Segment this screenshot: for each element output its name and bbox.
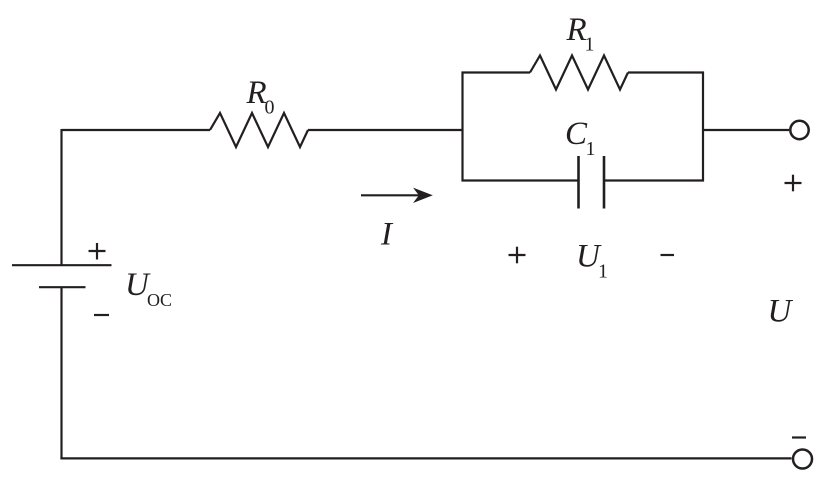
- minus mark of U1: [661, 254, 675, 256]
- svg-text:OC: OC: [147, 290, 172, 310]
- positive terminal circle: [790, 121, 808, 139]
- plus mark of U1: [509, 247, 526, 264]
- wire top branch left stub: [462, 71, 531, 73]
- label R1: [566, 12, 595, 56]
- wire bottom horizontal: [60, 457, 791, 459]
- svg-text:1: 1: [598, 261, 608, 283]
- wire R0 to parallel block: [308, 129, 463, 131]
- svg-text:R: R: [246, 75, 267, 111]
- wire left vertical lower (battery - to bottom-left corner): [60, 287, 62, 458]
- wire top horizontal (corner to R0): [62, 129, 211, 131]
- resistor R0: [210, 113, 308, 147]
- resistor R1: [530, 56, 628, 90]
- svg-text:U: U: [768, 294, 794, 330]
- svg-text:R: R: [566, 12, 587, 48]
- label UOC: [125, 267, 172, 310]
- wire top branch right stub: [628, 71, 704, 73]
- svg-text:1: 1: [586, 138, 596, 160]
- wire parallel block left branch: [461, 72, 463, 182]
- current arrow I: [361, 189, 432, 202]
- battery minus mark: [94, 314, 109, 316]
- svg-text:1: 1: [585, 34, 595, 56]
- label I: [380, 217, 394, 253]
- wire left vertical upper (battery + to top-left corner): [60, 129, 62, 265]
- label R0: [246, 75, 275, 119]
- wire bottom branch left stub: [462, 179, 579, 181]
- wire parallel block right branch: [702, 72, 704, 182]
- negative terminal circle: [793, 450, 812, 469]
- wire bottom branch right stub: [604, 179, 704, 181]
- battery UOC positive plate: [12, 264, 112, 266]
- svg-text:0: 0: [265, 97, 275, 119]
- minus mark at negative terminal: [792, 436, 806, 438]
- wire block to positive terminal: [703, 129, 789, 131]
- label U output: [768, 294, 794, 330]
- svg-text:I: I: [380, 217, 394, 253]
- battery plus mark: [89, 243, 106, 260]
- label U1: [576, 239, 608, 283]
- capacitor C1 left plate: [577, 156, 580, 209]
- capacitor C1 right plate: [603, 156, 606, 209]
- plus mark at positive terminal: [785, 175, 802, 192]
- battery UOC negative plate: [39, 286, 86, 288]
- label C1: [565, 116, 596, 160]
